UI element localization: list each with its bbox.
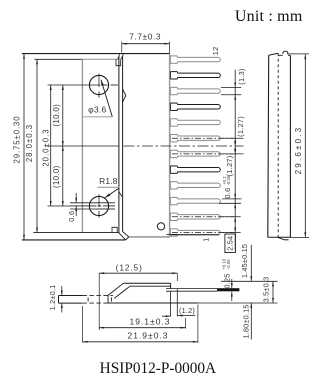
svg-text:(1.2): (1.2) xyxy=(179,306,195,315)
svg-text:20.0±0.3: 20.0±0.3 xyxy=(42,128,51,166)
svg-text:1.80±0.15: 1.80±0.15 xyxy=(242,304,251,338)
svg-text:1: 1 xyxy=(202,237,211,241)
svg-text:3.5±0.3: 3.5±0.3 xyxy=(262,277,271,303)
svg-text:19.1±0.3: 19.1±0.3 xyxy=(129,317,170,327)
svg-text:φ3.6: φ3.6 xyxy=(88,104,106,114)
svg-text:(10.0): (10.0) xyxy=(52,165,61,188)
svg-text:(10.0): (10.0) xyxy=(52,104,61,127)
svg-text:-0.05: -0.05 xyxy=(226,175,231,185)
svg-text:(1.3): (1.3) xyxy=(237,68,246,85)
svg-text:-0.05: -0.05 xyxy=(226,259,231,269)
svg-text:Unit : mm: Unit : mm xyxy=(235,8,303,25)
svg-text:7.7±0.3: 7.7±0.3 xyxy=(129,31,161,41)
svg-text:R1.8: R1.8 xyxy=(99,176,118,186)
svg-text:(1.27): (1.27) xyxy=(225,155,234,176)
svg-text:1.2±0.1: 1.2±0.1 xyxy=(48,285,57,311)
svg-text:29.6±0.3: 29.6±0.3 xyxy=(294,126,303,175)
svg-text:0.6: 0.6 xyxy=(223,187,232,198)
svg-text:(1.27): (1.27) xyxy=(236,116,245,137)
svg-text:0.6: 0.6 xyxy=(67,211,76,222)
svg-text:2.54: 2.54 xyxy=(226,236,235,251)
svg-text:21.9±0.3: 21.9±0.3 xyxy=(127,331,168,341)
svg-text:HSIP012-P-0000A: HSIP012-P-0000A xyxy=(100,360,216,377)
svg-text:(12.5): (12.5) xyxy=(116,263,143,273)
svg-text:12: 12 xyxy=(211,47,220,56)
svg-text:1.45±0.15: 1.45±0.15 xyxy=(240,244,249,278)
svg-text:29.75±0.30: 29.75±0.30 xyxy=(13,116,22,164)
svg-text:28.0±0.3: 28.0±0.3 xyxy=(25,124,34,162)
